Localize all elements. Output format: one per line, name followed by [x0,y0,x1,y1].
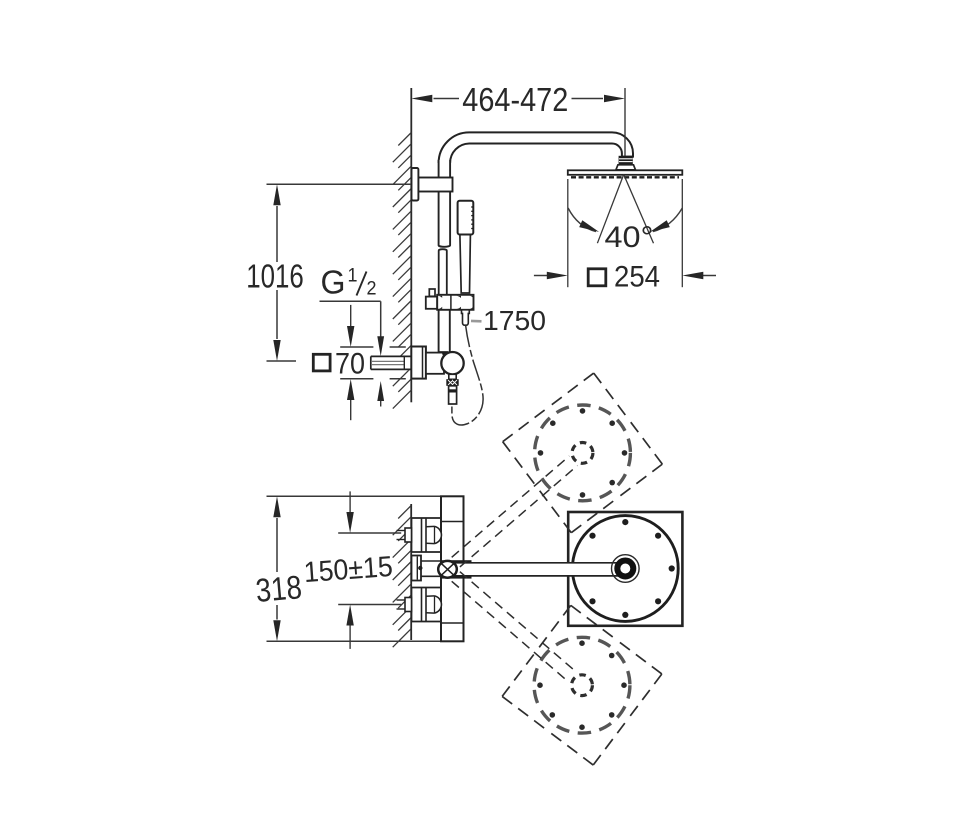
head square (plan) [568,512,682,626]
slider knob [429,289,435,296]
slider clamp divider [450,295,452,310]
supply connection top (plan) [397,518,442,552]
wall hatching (plan view) [393,506,412,648]
head hub [612,555,640,583]
wall hatching (side view) [393,133,412,409]
hand shower handle [458,201,474,235]
dim arrow right 464-472 [604,95,625,102]
pivot flange (plan) [412,556,422,581]
supply pipe stub [371,356,412,371]
head face circle [572,516,678,622]
square symbol 254 [588,269,606,286]
extension line head right [681,179,683,287]
dashed arm upper [452,456,578,567]
spray angle arc right [653,208,682,232]
extension line head left [567,179,569,287]
knurled nut [446,379,458,386]
svg-text:70: 70 [335,348,365,381]
dim line 464-472 [434,98,460,100]
dim arrow left 464-472 [411,95,432,102]
150 bottom reference line [338,604,401,606]
hand shower spray ticks [471,206,473,208]
150 arrow up [349,625,351,649]
318 top reference line [267,495,464,497]
head nozzle dots [589,519,674,618]
shower head spray face [571,176,679,178]
svg-text:1: 1 [348,266,358,287]
extension line right (shower arm center) [624,88,626,156]
spray angle arrow left [579,220,599,232]
svg-text:464-472: 464-472 [462,81,568,118]
70 upper dim line [340,346,373,348]
1016 arrow down [273,340,280,361]
mixer body internal lines [441,521,464,523]
rail tube [439,249,447,297]
spray angle left line [597,175,623,244]
1016 top reference line [267,183,411,185]
svg-text:1016: 1016 [246,258,304,295]
swivel arm tube [452,563,625,576]
150 arrow down [349,491,351,513]
70 arrow up [350,400,352,421]
1016 bottom reference line [267,360,297,362]
wall line (plan view) [410,504,412,640]
dim line 254 left [534,275,547,277]
svg-text:40°: 40° [605,221,654,254]
svg-text:1750: 1750 [483,305,546,336]
slider dark fillets [457,296,462,298]
150 top reference line [338,532,401,534]
spray angle arc left [568,208,596,232]
hose nipple valve [449,386,457,404]
pivot ball [438,561,457,578]
dashed head position lower [502,605,662,765]
wall line (side view) [410,88,412,347]
shower hose [452,325,483,425]
318 arrow up [273,496,280,517]
svg-text:G: G [321,264,346,301]
pivot clamp bars [441,560,472,563]
riser pipe upper [439,160,451,247]
wall bracket plate [412,168,419,201]
318 arrow down [273,620,280,641]
hand shower nipple [462,310,470,325]
svg-text:150±15: 150±15 [303,551,394,589]
lower riser tube [439,308,450,352]
valve junction wedge [442,352,449,356]
svg-text:254: 254 [614,261,660,294]
dashed head position upper [503,373,663,533]
wall bracket arm [418,178,452,192]
svg-text:318: 318 [254,568,303,609]
hand shower wand [460,235,471,293]
70 arrow down [350,305,352,327]
shower head connector nut [619,156,633,165]
318 dim line [276,518,278,572]
G1/2 leader arrow [377,336,384,356]
svg-text:2: 2 [367,279,377,300]
spray angle arrow right [650,220,670,232]
valve top junction line [439,351,448,353]
dim arrow 254 left [547,272,568,279]
shower head connector base [616,165,636,170]
1750 leader dash [471,320,482,323]
slider clamp [437,295,473,310]
1016 dim line [276,206,278,262]
valve flange [411,347,426,379]
temperature knob circle [441,352,463,374]
spray angle right line [624,175,654,244]
mixer body (plan) [441,496,464,641]
shower arm tube [439,132,633,163]
dim arrow 254 right [682,272,703,279]
valve body [426,353,444,374]
knob neck [449,374,456,379]
318 bottom reference line [267,640,464,642]
supply connection bottom (plan) [397,588,442,622]
shower head plate [568,170,683,175]
square symbol 70 [313,354,330,371]
dim line 254 right [703,275,716,277]
slider left block [426,297,437,309]
70 lower dim line [340,378,373,380]
dashed arm lower [452,572,577,682]
pivot connect lines [421,560,441,562]
supply arrow up [380,401,382,407]
G1/2 leader line [320,300,381,302]
1016 arrow up [273,184,280,205]
